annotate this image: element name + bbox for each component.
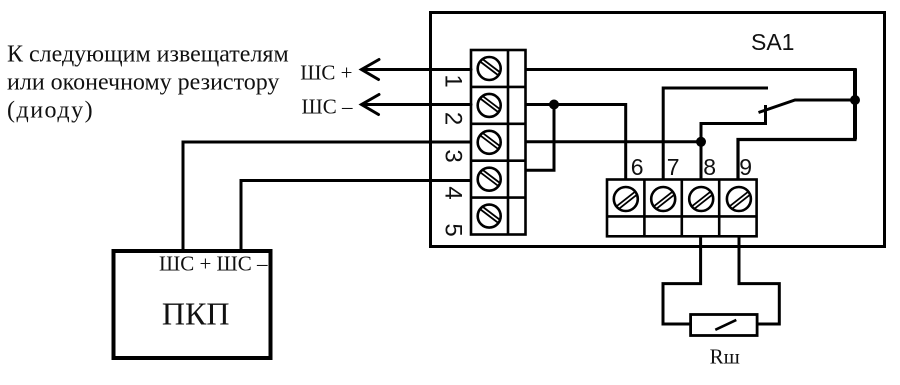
svg-text:3: 3: [440, 149, 467, 162]
wire node A to terminal4: [526, 105, 555, 171]
junction dot node B: [696, 137, 706, 147]
svg-text:ШС + ШС –: ШС + ШС –: [159, 252, 268, 276]
terminal block XT2 body: [607, 180, 757, 237]
wire terminal7 open contact: [663, 88, 768, 180]
wire bus vertical: [853, 69, 857, 140]
device box PKP: [114, 251, 271, 358]
wire bus to terminal9: [738, 140, 857, 181]
wire terminal4 to PKP: [241, 181, 471, 251]
screw terminal 4: [478, 168, 501, 191]
terminal block XT1 body: [471, 50, 526, 235]
svg-text:или оконечному резистору: или оконечному резистору: [7, 70, 279, 96]
screw terminal 6: [614, 187, 638, 211]
svg-text:ШС –: ШС –: [302, 95, 353, 119]
svg-text:6: 6: [631, 154, 644, 180]
svg-text:4: 4: [440, 186, 467, 199]
junction dot switch common: [850, 95, 860, 105]
enclosure box SA1: [431, 13, 885, 247]
wire ShS- with arrow: [362, 95, 472, 115]
screw terminal 9: [727, 187, 751, 211]
screw terminal 3: [478, 131, 501, 154]
screw terminal 5: [478, 205, 501, 228]
wire node B to fixed contact: [701, 105, 766, 142]
svg-text:5: 5: [440, 223, 467, 236]
screw terminal 2: [478, 94, 501, 117]
svg-text:ШС +: ШС +: [300, 61, 352, 85]
svg-text:8: 8: [703, 154, 716, 180]
svg-text:(диоду): (диоду): [7, 98, 94, 124]
wire terminal2 bus to terminal6: [526, 105, 626, 181]
wire terminal1 to switch common: [526, 68, 857, 71]
svg-text:ПКП: ПКП: [162, 296, 230, 332]
wire terminal3 to terminal8 and switch contact: [526, 142, 702, 180]
switch SA1 lever: [759, 100, 856, 113]
wire terminal8 to resistor: [663, 236, 701, 324]
screw terminal 1: [478, 57, 501, 80]
svg-text:2: 2: [440, 112, 467, 125]
wire terminal3 to PKP: [183, 142, 471, 250]
svg-text:9: 9: [739, 154, 752, 180]
svg-text:К следующим извещателям: К следующим извещателям: [7, 42, 289, 68]
svg-text:SA1: SA1: [751, 29, 794, 55]
svg-text:Rш: Rш: [710, 345, 740, 369]
resistor Rsh: [691, 315, 758, 336]
svg-text:1: 1: [440, 74, 467, 87]
wire terminal9 to resistor: [739, 236, 779, 324]
junction dot node A: [549, 100, 559, 110]
screw terminal 7: [651, 187, 675, 211]
wire ShS+ with arrow: [362, 60, 472, 80]
screw terminal 8: [689, 187, 713, 211]
svg-text:7: 7: [667, 154, 680, 180]
